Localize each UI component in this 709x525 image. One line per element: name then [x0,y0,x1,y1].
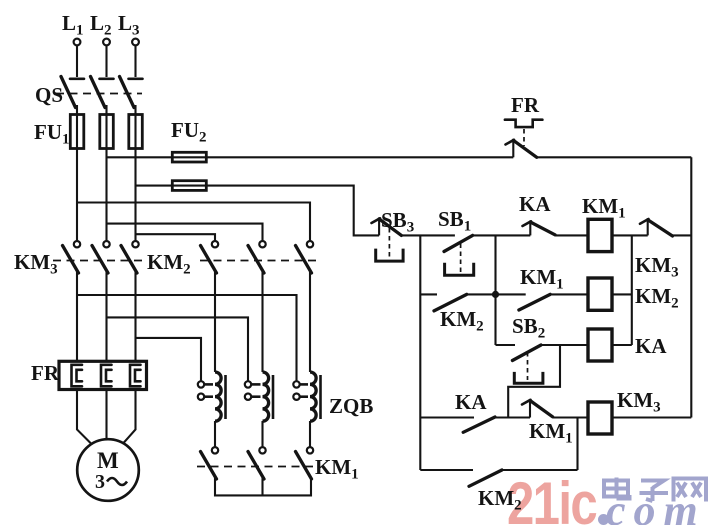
wire KM1c2 to star bar [261,478,263,495]
autotransformer coil 1 [198,372,226,421]
wire phase2 vertical [105,105,107,241]
wire phase3 to FU2b [136,185,173,187]
autotransformer coil 2 [245,372,273,421]
wire phase2 to coil2 tap [107,317,249,381]
contactor KM2 contact 1 [201,241,219,273]
wire row B mid [467,293,526,295]
watermark dot [598,514,609,525]
autotransformer coil 3 [293,372,320,421]
relay contact KA row D [463,417,495,432]
svg-text:KA: KA [635,334,667,358]
FR heater 1 [72,365,83,387]
wire L3 lead [134,46,136,78]
contact KM2 NO row B [434,294,467,311]
KM1 linkage dashes [197,466,317,468]
wire SB2 bypass path [508,345,560,418]
fuse FU1 c [129,115,143,149]
contactor KM3 contact 2 [92,241,110,273]
fuse FU1 b [100,115,114,149]
wire row E left [420,469,473,471]
junction dot [492,291,499,298]
wire left rail [419,235,421,470]
wire phase1 vertical [76,105,78,241]
wire row E right [502,469,578,471]
coil KM1 [588,219,612,251]
wire coil2 to KM1c2 [261,421,263,447]
wire phase1 to coil3 tap [77,295,297,381]
wire FR to right rail [537,156,692,158]
coil KA [588,329,612,361]
pushbutton SB2 [512,345,542,383]
contactor KM3 contact 1 [63,241,81,273]
thermal relay FR box [59,361,147,389]
terminal L3 [132,39,139,46]
wire KM2 coil to branch [612,293,632,295]
wire phase3 to coil1 tap [136,338,202,381]
wire FR to motor right [123,390,136,444]
contactor KM1 contact 1 [201,447,219,479]
svg-text:QS: QS [35,83,63,107]
FR heater 2 [101,365,112,387]
switch QS [56,77,143,108]
FR heater 3 [130,365,141,387]
wire SB3 to SB1 [401,234,455,236]
wire KM3c1 down to FR [76,272,78,362]
wire FR to motor mid [105,390,107,439]
fuse FU2 a [172,152,206,162]
contact KM2 NO row E [469,470,502,486]
wire row D left [420,416,474,418]
watermark dian [604,478,706,502]
contactor KM1 contact 3 [296,447,314,479]
wire L2 lead [105,46,107,78]
watermark wang [674,479,707,502]
svg-text:KA: KA [455,390,487,414]
svg-text:KA: KA [519,192,551,216]
wire row E riser [576,418,578,471]
watermark zi [640,481,669,502]
wire phase2 to KM2c2 [107,224,263,241]
contactor KM2 contact 3 [296,241,314,273]
wire phase1 to KM2c3 [77,203,310,242]
wire through FU2a [172,156,206,158]
terminal L2 [103,39,110,46]
wire KM3c2 down to FR [105,272,107,362]
pushbutton SB1 [444,235,474,275]
svg-text:M: M [97,448,119,473]
contact KM1 NC row D [522,400,553,418]
wire SB1 to KA [473,234,531,236]
coil KM2 [588,278,612,310]
coil KM3 [588,402,612,434]
wire branch vertical [631,235,633,345]
motor M [77,439,139,501]
watermark 21ic [507,470,706,525]
wire KM1 coil to KM3 NC [612,234,648,236]
wire row B to KM2 coil [550,293,588,295]
wire SB2 to KA coil [541,344,588,346]
svg-text:FR: FR [31,361,60,385]
fuse FU1 a [70,115,84,149]
wire KM2c2 down to coil2 [261,272,263,372]
FR dashed link [523,129,525,146]
svg-text:3: 3 [95,471,105,493]
svg-text:ZQB: ZQB [329,394,373,418]
svg-text:com: com [606,486,706,525]
contact KM1 NO row B [519,294,550,310]
wire FU2a to FR contact [206,156,513,158]
wire row B left [420,293,437,295]
wire KM2c1 down to coil1 [214,272,216,372]
wire KM1 star bar [215,478,311,495]
KM2 linkage dashes [200,260,318,262]
contact KM3 NC row A [640,219,673,236]
wire row D mid [495,416,530,418]
wire through FU2b [172,185,206,187]
wire phase3 to KM2c1 [136,234,216,241]
contactor KM2 contact 2 [248,241,266,273]
svg-text:FR: FR [511,93,540,117]
KM3 linkage dashes [53,260,143,262]
terminal L1 [74,39,81,46]
wire KM2c3 down to coil3 [309,272,311,372]
wire row C left [496,344,516,346]
FR trip element [505,120,542,127]
wire KA to KM1 coil [555,234,588,236]
wire FR to motor left [77,390,91,444]
contactor KM1 contact 2 [248,447,266,479]
wire KM3c3 down to FR [134,272,136,362]
contactor KM3 contact 3 [121,241,139,273]
FR NC contact [506,140,537,158]
pushbutton SB3 [372,218,404,261]
wire coil3 to KM1c3 [309,421,311,447]
wire junction vertical [494,235,496,345]
wire phase2 to FU2a [107,156,173,158]
wire phase3 vertical [134,105,136,241]
relay contact KA row A [523,221,556,235]
wire KA coil to branch [612,344,632,346]
wire KM3 NC to rail [673,234,692,236]
wire right rail [690,157,692,417]
fuse FU2 b [172,181,206,191]
wire KM1 NC to KM3 coil [553,416,588,418]
wire L1 lead [76,46,78,78]
wire KM3 coil to rail [612,416,691,418]
wire coil1 to KM1c1 [214,421,216,447]
wire FU2b to SB3 [206,186,379,236]
